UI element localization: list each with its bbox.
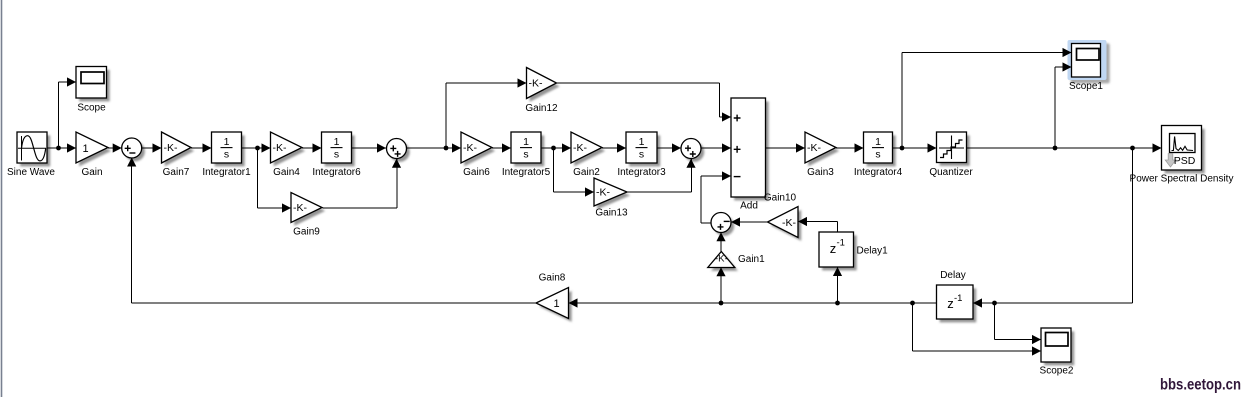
- svg-text:Gain13: Gain13: [595, 208, 628, 219]
- svg-text:-1: -1: [837, 238, 845, 249]
- svg-text:Power Spectral Density: Power Spectral Density: [1130, 174, 1234, 185]
- svg-text:1: 1: [334, 136, 340, 148]
- svg-text:Gain2: Gain2: [573, 167, 600, 178]
- svg-text:Gain3: Gain3: [807, 167, 834, 178]
- svg-text:Gain4: Gain4: [273, 167, 300, 178]
- svg-text:1: 1: [224, 136, 230, 148]
- svg-text:Gain: Gain: [81, 167, 102, 178]
- svg-text:Integrator1: Integrator1: [202, 167, 251, 178]
- svg-text:Gain8: Gain8: [539, 273, 566, 284]
- svg-text:Gain10: Gain10: [764, 193, 797, 204]
- svg-text:Delay1: Delay1: [857, 246, 889, 257]
- svg-text:Integrator5: Integrator5: [502, 167, 551, 178]
- svg-text:-K-: -K-: [782, 217, 797, 229]
- svg-text:bbs.eetop.cn: bbs.eetop.cn: [1160, 377, 1241, 394]
- svg-text:Integrator6: Integrator6: [312, 167, 361, 178]
- svg-text:Integrator3: Integrator3: [617, 167, 666, 178]
- svg-text:1: 1: [523, 136, 529, 148]
- svg-text:z: z: [947, 296, 954, 311]
- svg-text:-K-: -K-: [807, 142, 822, 154]
- svg-text:1: 1: [82, 143, 88, 155]
- svg-text:-1: -1: [954, 293, 962, 304]
- svg-text:Quantizer: Quantizer: [929, 167, 973, 178]
- svg-text:s: s: [875, 149, 880, 161]
- svg-text:-K-: -K-: [164, 142, 179, 154]
- svg-text:Sine Wave: Sine Wave: [7, 167, 55, 178]
- svg-text:Gain6: Gain6: [463, 167, 490, 178]
- svg-text:s: s: [523, 149, 528, 161]
- svg-text:s: s: [639, 149, 644, 161]
- svg-text:s: s: [334, 149, 339, 161]
- svg-text:Scope: Scope: [77, 103, 106, 114]
- svg-text:1: 1: [553, 298, 559, 310]
- svg-text:Scope1: Scope1: [1069, 81, 1103, 92]
- svg-text:Add: Add: [740, 201, 758, 212]
- svg-text:1: 1: [639, 136, 645, 148]
- svg-text:-K-: -K-: [293, 202, 308, 214]
- svg-text:-K-: -K-: [715, 253, 728, 264]
- svg-text:Gain12: Gain12: [525, 103, 558, 114]
- svg-text:Gain7: Gain7: [163, 167, 190, 178]
- svg-text:-K-: -K-: [529, 78, 544, 90]
- svg-text:Delay: Delay: [940, 270, 966, 281]
- svg-text:Gain1: Gain1: [738, 254, 765, 265]
- svg-text:Scope2: Scope2: [1040, 366, 1074, 377]
- svg-text:PSD: PSD: [1174, 155, 1196, 167]
- svg-text:-K-: -K-: [273, 142, 288, 154]
- svg-text:-K-: -K-: [463, 142, 478, 154]
- svg-text:Integrator4: Integrator4: [854, 167, 903, 178]
- svg-text:Gain9: Gain9: [293, 227, 320, 238]
- svg-text:s: s: [224, 149, 229, 161]
- svg-text:z: z: [830, 241, 837, 256]
- svg-text:-K-: -K-: [573, 142, 588, 154]
- svg-text:-K-: -K-: [596, 187, 611, 199]
- svg-text:1: 1: [875, 136, 881, 148]
